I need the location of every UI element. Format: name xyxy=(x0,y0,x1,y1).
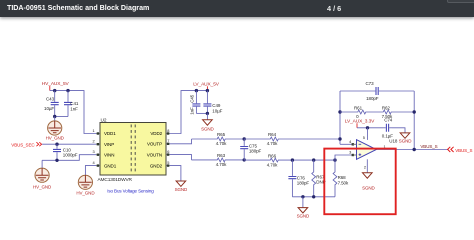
wire VBUS_SEC to U2 VINP xyxy=(42,143,96,145)
svg-text:SGND: SGND xyxy=(362,186,375,191)
resistor R61 labels xyxy=(354,105,363,119)
capacitor C49 10uF xyxy=(203,91,222,114)
svg-text:U2: U2 xyxy=(101,117,107,123)
U2 pin 2 VINP xyxy=(93,139,115,147)
svg-text:1nF: 1nF xyxy=(190,107,195,115)
capacitor C41 1nF xyxy=(64,91,79,117)
wire op-amp minus input stub xyxy=(340,143,353,145)
junction R68 tap xyxy=(333,158,336,161)
svg-text:U18: U18 xyxy=(389,139,398,144)
svg-text:4.70k: 4.70k xyxy=(267,162,278,167)
wire stem to SGND xyxy=(206,113,208,119)
svg-text:4.70k: 4.70k xyxy=(216,162,227,167)
svg-text:5: 5 xyxy=(363,135,365,140)
wire R61 R62 feedback rail xyxy=(340,110,414,114)
junction C76 tap xyxy=(291,158,294,161)
svg-text:4: 4 xyxy=(93,160,96,165)
svg-text:HV_AUX_5V: HV_AUX_5V xyxy=(42,81,70,87)
svg-text:180pF: 180pF xyxy=(297,181,310,186)
svg-text:0: 0 xyxy=(356,114,359,119)
capacitor C76 180pF xyxy=(288,160,309,197)
svg-text:R66: R66 xyxy=(268,153,277,158)
svg-text:R62: R62 xyxy=(382,105,391,110)
ground HV_GND under C43 xyxy=(46,121,65,140)
svg-text:SGND: SGND xyxy=(399,139,412,144)
resistor R67 DNP xyxy=(312,160,326,197)
junction at SGND stem xyxy=(206,112,209,115)
junction op-amp pin5 xyxy=(366,126,369,129)
U2 pin 8 VDD2 xyxy=(150,128,169,136)
wire bottom rail to SGND xyxy=(292,196,335,198)
port VBUS_S xyxy=(448,147,473,153)
wire jog to op-amp plus input xyxy=(335,155,353,160)
power port LV_AUX_3.3V xyxy=(345,118,375,127)
capacitor C74 0.1uF xyxy=(382,117,393,138)
svg-text:1000pF: 1000pF xyxy=(63,152,78,157)
svg-text:VINN: VINN xyxy=(104,152,114,157)
wire VOUTN through R63 xyxy=(170,155,244,162)
svg-text:8: 8 xyxy=(167,128,169,133)
wire VINN net to U2 pin3 xyxy=(42,155,96,161)
junction R64 wire tee xyxy=(338,137,341,140)
svg-text:VINP: VINP xyxy=(104,142,114,147)
svg-text:3: 3 xyxy=(349,150,351,155)
svg-text:5: 5 xyxy=(167,160,169,165)
svg-text:R65: R65 xyxy=(217,132,226,137)
wire U2 GND1 to ground xyxy=(85,166,96,176)
junction at C43 tap xyxy=(53,89,56,92)
capacitor C75 180pF xyxy=(240,139,261,160)
wire right feedback vertical xyxy=(413,91,415,150)
svg-text:3: 3 xyxy=(93,149,95,154)
svg-text:VBUS_S: VBUS_S xyxy=(455,148,472,153)
ground SGND at U2 GND2 xyxy=(175,181,188,192)
port VBUS_SEC xyxy=(11,142,41,147)
wire to op-amp plus input through R66 xyxy=(244,158,335,162)
svg-text:10µF: 10µF xyxy=(44,106,54,111)
wire left feedback vertical xyxy=(339,91,341,144)
wire C45-C49 bottoms xyxy=(196,112,207,114)
wire stem to HV_GND xyxy=(54,117,56,122)
U18 pin 4 pad and number xyxy=(349,139,356,146)
red highlight rectangle xyxy=(324,149,395,215)
svg-text:R68: R68 xyxy=(338,175,347,180)
svg-text:C49: C49 xyxy=(212,103,221,108)
capacitor C45 1nF xyxy=(190,91,201,115)
svg-text:SGND: SGND xyxy=(297,213,310,218)
svg-text:VOUTP: VOUTP xyxy=(147,142,162,147)
svg-text:10µF: 10µF xyxy=(212,109,222,114)
svg-text:C73: C73 xyxy=(366,81,375,86)
svg-text:VDD2: VDD2 xyxy=(150,131,162,136)
U2 pin 7 VOUTP xyxy=(147,138,170,146)
resistor R66 labels xyxy=(267,153,278,167)
junction at C10 top xyxy=(55,143,58,146)
junction R67 tap xyxy=(312,158,315,161)
junction at C10 bottom xyxy=(55,159,58,162)
wire C43-C41 bottoms xyxy=(55,116,68,118)
svg-text:HV_GND: HV_GND xyxy=(76,190,95,195)
capacitor C10 1000pF xyxy=(53,144,78,160)
svg-text:VBUS_S: VBUS_S xyxy=(420,144,437,149)
svg-text:R61: R61 xyxy=(354,105,363,110)
junction at HV_GND stem xyxy=(53,115,56,118)
power port LV_AUX_5V xyxy=(193,82,220,91)
wire LV_AUX_5V rail to U2 VDD2 xyxy=(170,91,208,134)
svg-text:SGND: SGND xyxy=(175,187,188,192)
resistor R62 labels xyxy=(382,105,393,119)
U2 pin 6 VOUTN xyxy=(147,149,170,157)
header partial button top-right xyxy=(447,0,474,3)
U18 pin 2 to SGND xyxy=(364,159,367,173)
junction R61 rail left xyxy=(338,110,341,113)
viewer header bar xyxy=(0,0,474,17)
ground SGND below divider xyxy=(297,208,310,219)
capacitor C73 180pF feedback xyxy=(340,81,414,101)
svg-text:VDD1: VDD1 xyxy=(104,131,116,136)
resistor R65 labels xyxy=(216,132,227,146)
svg-text:R63: R63 xyxy=(217,153,226,158)
ground HV_GND at U2 GND1 xyxy=(76,175,95,195)
svg-text:C43: C43 xyxy=(46,97,55,102)
op-amp U2 AMC1301DWVR body xyxy=(98,117,167,183)
ground HV_GND on VINN return xyxy=(33,168,52,189)
svg-text:R64: R64 xyxy=(268,132,277,137)
wire U2 GND2 to SGND xyxy=(170,166,181,181)
header title text xyxy=(7,4,149,12)
wire VOUTP through R65 xyxy=(170,137,244,144)
wire stem to HV_GND left xyxy=(41,160,43,168)
U18 pin 3 pad and number xyxy=(349,150,356,157)
power port HV_AUX_5V xyxy=(42,81,70,91)
svg-text:1nF: 1nF xyxy=(70,106,78,111)
junction at C49 tap xyxy=(206,89,209,92)
svg-text:4.70k: 4.70k xyxy=(267,141,278,146)
resistor R63 labels xyxy=(216,153,227,167)
svg-text:4.70k: 4.70k xyxy=(216,141,227,146)
svg-text:LV_AUX_3.3V: LV_AUX_3.3V xyxy=(345,118,375,124)
wire stem down to SGND xyxy=(302,197,304,208)
svg-text:GND1: GND1 xyxy=(104,163,117,168)
svg-text:2: 2 xyxy=(93,139,95,144)
junction feedback at output xyxy=(413,148,416,151)
U18 output pin 1 xyxy=(376,144,448,149)
svg-text:180pF: 180pF xyxy=(366,96,379,101)
svg-text:C45: C45 xyxy=(190,94,195,103)
svg-text:GND2: GND2 xyxy=(150,163,163,168)
U2 pin 4 GND1 xyxy=(93,160,117,168)
wire C74 to SGND xyxy=(392,128,405,133)
svg-text:LV_AUX_5V: LV_AUX_5V xyxy=(193,82,220,88)
junction R67 bottom xyxy=(312,195,315,198)
svg-text:C74: C74 xyxy=(384,117,393,122)
ground SGND at C74 xyxy=(399,133,412,144)
svg-text:HV_GND: HV_GND xyxy=(33,184,52,189)
capacitor C43 10uF xyxy=(44,91,59,117)
header page indicator 4 / 6 xyxy=(327,4,341,13)
ground SGND under C49 xyxy=(201,120,214,132)
junction SGND stem xyxy=(301,195,304,198)
svg-text:C41: C41 xyxy=(70,101,79,106)
junction at C75 bottom xyxy=(243,158,246,161)
svg-text:Iso Bus Voltage Sensing: Iso Bus Voltage Sensing xyxy=(107,188,154,193)
svg-text:AMC1301DWVR: AMC1301DWVR xyxy=(98,177,133,183)
U2 pin 5 GND2 xyxy=(150,160,170,168)
svg-text:1: 1 xyxy=(93,128,95,133)
svg-text:7: 7 xyxy=(167,138,169,143)
svg-text:VOUTN: VOUTN xyxy=(147,152,162,157)
svg-text:HV_GND: HV_GND xyxy=(46,135,65,140)
svg-text:2: 2 xyxy=(364,164,366,169)
wire op-amp pin5 xyxy=(363,128,368,140)
svg-text:VBUS_SEC: VBUS_SEC xyxy=(11,142,35,147)
svg-text:180pF: 180pF xyxy=(249,148,262,153)
resistor R64 labels xyxy=(267,132,278,146)
junction at C75 top xyxy=(243,137,246,140)
op-amp U18 triangle xyxy=(357,140,377,160)
wire to op-amp minus input through R64 xyxy=(244,137,340,141)
svg-text:7.50k: 7.50k xyxy=(338,180,349,185)
junction at C45 tap xyxy=(195,89,198,92)
junction at C41 tap xyxy=(66,89,69,92)
U2 pin 3 VINN xyxy=(93,149,115,157)
junction R62 rail right xyxy=(413,110,416,113)
wire HV_AUX_5V rail to U2 pin1 xyxy=(50,91,97,134)
ground SGND under op-amp xyxy=(362,173,375,191)
wire supply rail to C74 xyxy=(357,127,383,129)
resistor R68 7.50k xyxy=(333,160,349,197)
svg-text:6: 6 xyxy=(167,149,169,154)
svg-text:SGND: SGND xyxy=(201,127,214,132)
U2 pin 1 VDD1 xyxy=(93,128,117,136)
